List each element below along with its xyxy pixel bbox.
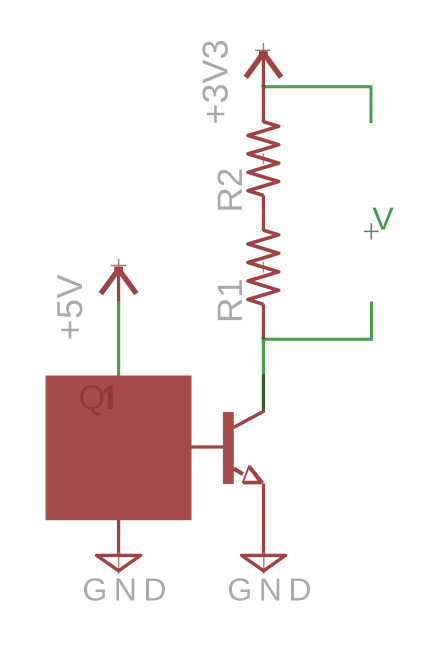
wire base (192, 445, 223, 448)
GND label left (84, 578, 165, 601)
resistor R1 (248, 213, 279, 338)
collector pin (dark green) (262, 374, 265, 412)
GND label right (229, 578, 310, 601)
wire net +V top (263, 87, 371, 123)
+5V label (57, 275, 82, 339)
ground GND right (242, 552, 286, 574)
power symbol +5V (101, 259, 137, 303)
wire net +V bottom (263, 302, 371, 340)
wire emitter to GND (262, 484, 265, 555)
R2 label (218, 170, 242, 210)
wire collector net (green) (262, 339, 265, 374)
wire +5V to Q1 (green) (117, 301, 120, 376)
junction at collector net (262, 337, 266, 341)
resistor R2 (248, 87, 279, 213)
power symbol +3V3 (246, 43, 281, 87)
module Q1 (46, 376, 192, 521)
Q1 label (80, 385, 112, 415)
wire Q1 to GND (117, 520, 120, 554)
net label +V (364, 208, 394, 240)
R1 label (218, 280, 242, 320)
transistor (NPN) (223, 411, 265, 484)
junction at +3V3 (262, 85, 266, 89)
+3V3 label (202, 41, 228, 123)
ground GND left (97, 552, 141, 574)
